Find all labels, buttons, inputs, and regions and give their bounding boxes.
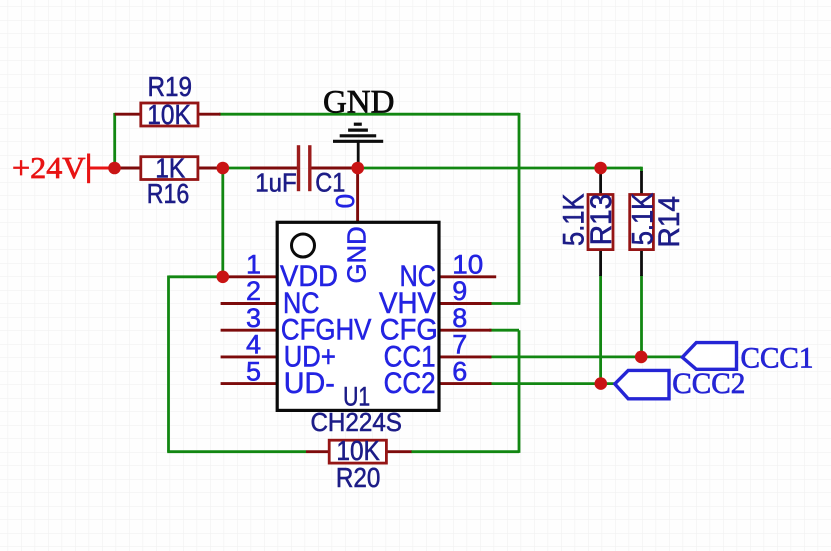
svg-text:1uF: 1uF [255,167,297,197]
svg-text:10K: 10K [147,99,191,130]
svg-text:CC2: CC2 [384,367,436,400]
svg-text:2: 2 [246,276,261,306]
svg-text:GND: GND [323,85,395,121]
svg-text:0: 0 [330,194,360,208]
svg-text:5: 5 [246,356,261,386]
svg-text:R16: R16 [147,178,190,209]
svg-text:R14: R14 [653,196,686,248]
svg-text:CCC1: CCC1 [741,342,814,375]
svg-text:9: 9 [452,276,467,306]
svg-text:7: 7 [452,330,467,360]
svg-text:1: 1 [246,250,261,280]
svg-text:+24V: +24V [12,151,86,185]
svg-text:4: 4 [246,330,261,360]
svg-text:CCC2: CCC2 [672,367,745,400]
svg-text:10: 10 [452,250,483,280]
svg-text:CH224S: CH224S [310,407,402,437]
svg-text:R13: R13 [585,194,618,246]
svg-text:6: 6 [452,356,467,386]
svg-text:8: 8 [452,303,467,333]
svg-text:R19: R19 [147,71,192,102]
svg-text:UD-: UD- [284,367,335,400]
svg-text:R20: R20 [336,462,381,493]
svg-text:C1: C1 [315,168,345,198]
svg-text:GND: GND [342,226,372,283]
svg-text:3: 3 [246,303,261,333]
